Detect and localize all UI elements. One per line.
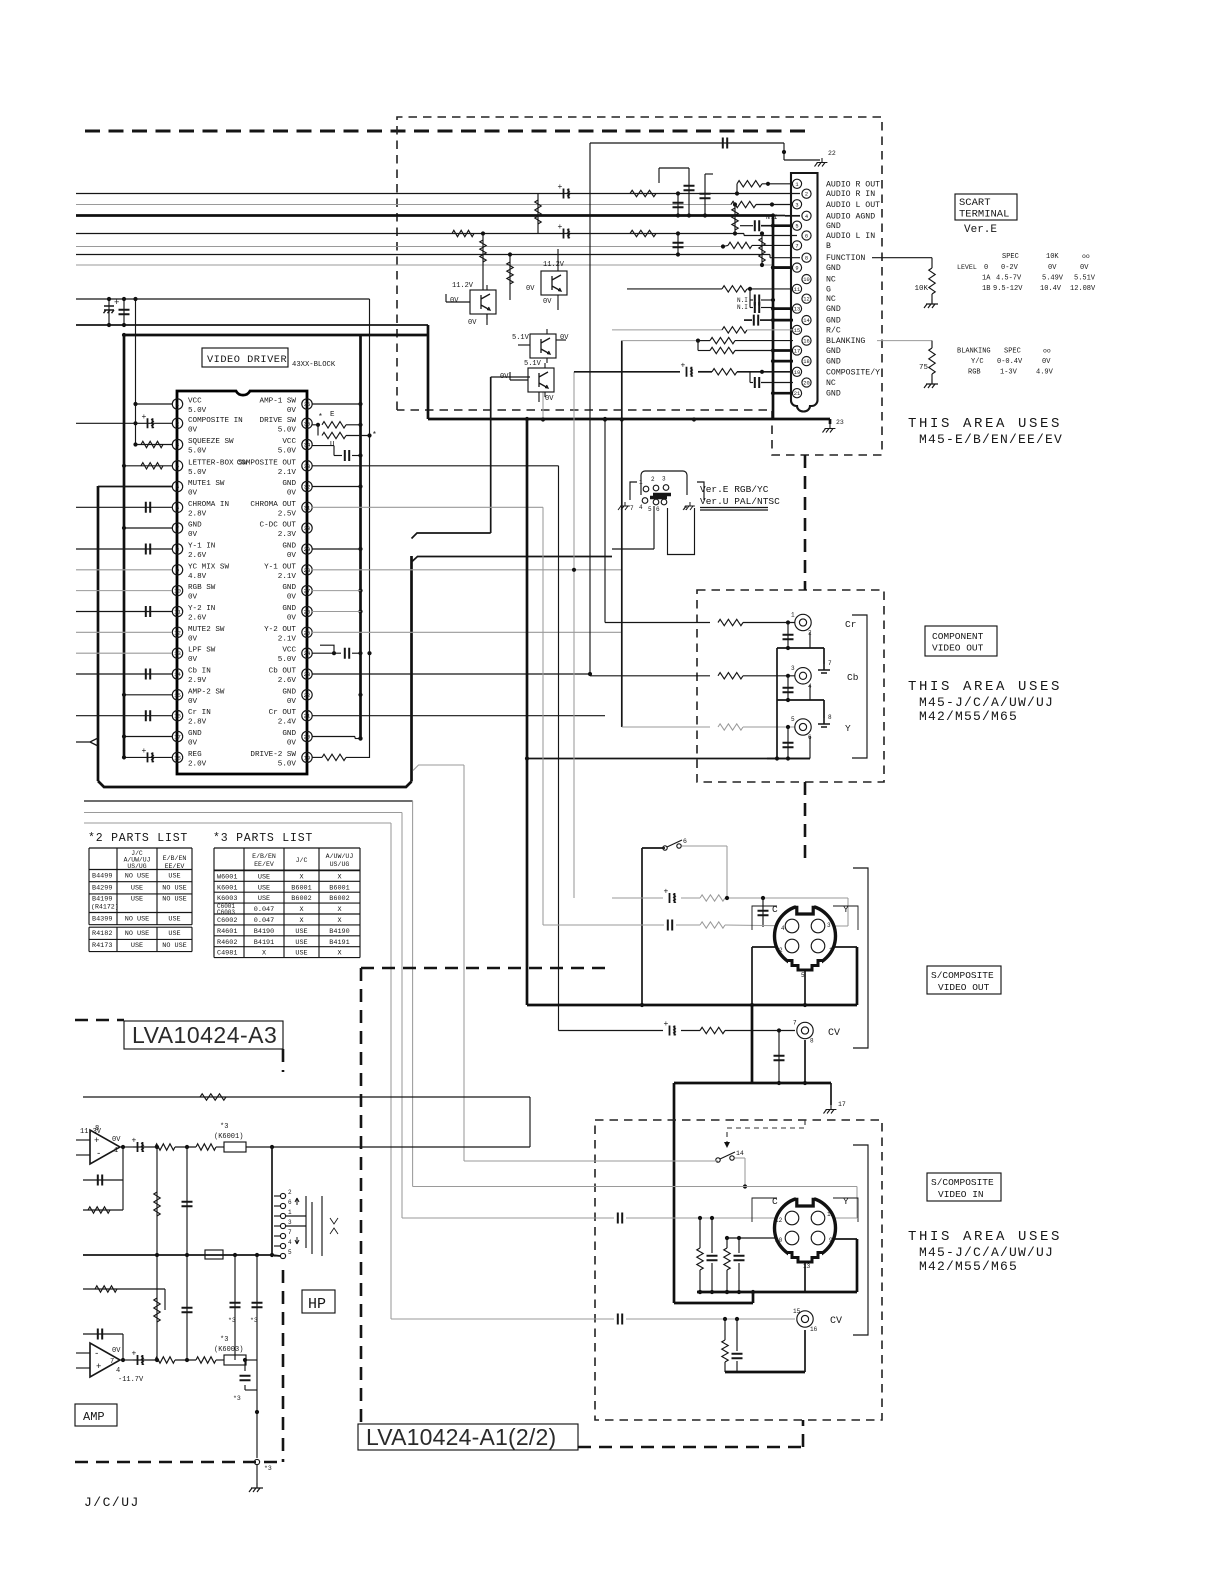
- dashed box component video out: [697, 590, 884, 782]
- svg-text:SPEC: SPEC: [1004, 348, 1021, 356]
- svg-text:E: E: [330, 411, 335, 419]
- resistor opamp A fb2: [83, 1209, 123, 1211]
- svg-text:Y: Y: [843, 1196, 849, 1207]
- IC pin 22 GND: [302, 690, 312, 700]
- svg-text:(K6001): (K6001): [214, 1133, 243, 1141]
- IC pin 18 REG: [172, 752, 182, 762]
- svg-text:10.4V: 10.4V: [1040, 285, 1062, 293]
- svg-text:GND: GND: [282, 584, 296, 592]
- IC pin 12 MUTE2 SW: [172, 627, 182, 637]
- svg-text:M45-J/C/A/UW/UJ: M45-J/C/A/UW/UJ: [919, 695, 1054, 710]
- wire to gnd 22: [783, 143, 785, 160]
- transistor Q4: [528, 368, 554, 392]
- transistor Q2: [541, 271, 567, 295]
- resistor B2: [196, 1357, 216, 1363]
- dashed A1 top edge: [361, 967, 612, 970]
- svg-text:8: 8: [810, 1038, 814, 1045]
- capacitor electrolytic audio r: [564, 189, 569, 199]
- svg-text:0V: 0V: [543, 298, 552, 306]
- IC pin 29 GND: [302, 544, 312, 554]
- svg-text:5.1V: 5.1V: [512, 334, 530, 342]
- svg-text:B4190: B4190: [329, 928, 349, 936]
- resistor A2: [196, 1144, 216, 1150]
- svg-text:27: 27: [304, 588, 311, 595]
- svg-text:GND: GND: [188, 522, 202, 530]
- wire pin2 electro entry: [133, 421, 137, 425]
- capacitor pin14: [744, 319, 752, 321]
- svg-text:0V: 0V: [560, 334, 569, 342]
- dashed A1 bottom: [578, 1446, 803, 1449]
- capacitor opamp A fb: [83, 1179, 123, 1181]
- resistor 75: [929, 348, 935, 374]
- svg-text:J/C/UJ: J/C/UJ: [84, 1495, 140, 1510]
- svg-text:USE: USE: [258, 884, 270, 892]
- svg-text:C: C: [772, 1196, 778, 1207]
- electro B out: [138, 1355, 143, 1365]
- svg-text:24: 24: [304, 650, 311, 657]
- capacitor pin14: [76, 673, 172, 675]
- svg-text:NO USE: NO USE: [125, 873, 149, 881]
- svg-text:S/COMPOSITE: S/COMPOSITE: [931, 970, 994, 981]
- label box S/COMPOSITE VIDEO IN: [927, 1173, 1001, 1201]
- svg-text:USE: USE: [295, 928, 307, 936]
- svg-text:NC: NC: [826, 276, 836, 285]
- svg-text:-11.7V: -11.7V: [118, 1376, 144, 1384]
- table *2 parts list: [89, 847, 192, 849]
- left bus 2: [97, 486, 100, 781]
- svg-text:SPEC: SPEC: [1002, 253, 1019, 261]
- cap divider B x187: [186, 1255, 188, 1360]
- svg-text:B: B: [826, 242, 831, 251]
- IC pin 34 VCC: [302, 439, 312, 449]
- wire cv out: [559, 1030, 664, 1032]
- wire pin7 gnd: [124, 527, 172, 529]
- vcc bus vertical: [369, 299, 371, 758]
- svg-text:12: 12: [775, 1217, 783, 1224]
- svg-text:16: 16: [803, 339, 809, 345]
- svg-text:4.5-7V: 4.5-7V: [996, 275, 1022, 283]
- svg-text:M45-E/B/EN/EE/EV: M45-E/B/EN/EE/EV: [919, 432, 1063, 447]
- svg-text:*3: *3: [220, 1123, 228, 1131]
- switch 14 feed: [464, 1160, 718, 1162]
- svg-text:2: 2: [805, 192, 808, 198]
- wire audio gnd bus thick: [76, 214, 773, 217]
- IC pin 5 MUTE1 SW: [172, 481, 182, 491]
- svg-text:10K: 10K: [914, 285, 928, 293]
- svg-text:LPF SW: LPF SW: [188, 647, 216, 655]
- svg-text:23: 23: [304, 671, 311, 678]
- svg-text:35: 35: [304, 420, 311, 427]
- svg-text:8: 8: [176, 546, 179, 553]
- svg-text:5.0V: 5.0V: [188, 448, 207, 456]
- svg-text:0.047: 0.047: [254, 917, 274, 925]
- svg-text:VCC: VCC: [282, 647, 296, 655]
- svg-text:B6001: B6001: [291, 884, 311, 892]
- svg-text:C: C: [772, 904, 778, 915]
- wire cv in: [391, 1318, 614, 1320]
- capacitor cv shunt: [778, 1031, 780, 1084]
- svg-text:3: 3: [795, 202, 798, 208]
- wire audio R in bus: [76, 193, 557, 195]
- svg-text:4.9V: 4.9V: [1036, 369, 1054, 377]
- thick bus y1005: [527, 1004, 857, 1007]
- svg-text:NC: NC: [826, 295, 836, 304]
- scart pin 8 FUNCTION: [802, 253, 811, 262]
- svg-text:14: 14: [174, 671, 181, 678]
- svg-text:14: 14: [803, 318, 809, 324]
- IC pin 26 GND: [302, 606, 312, 616]
- svg-text:32: 32: [304, 484, 311, 491]
- switch 6 wire left: [642, 847, 665, 849]
- svg-text:7: 7: [176, 525, 179, 532]
- svg-text:15: 15: [793, 1308, 801, 1315]
- scart pin 2 AUDIO R IN: [802, 189, 811, 198]
- svg-text:J/C: J/C: [296, 857, 308, 864]
- wire pin8 function: [769, 255, 771, 258]
- svg-text:S/COMPOSITE: S/COMPOSITE: [931, 1177, 994, 1188]
- svg-text:+: +: [142, 413, 147, 422]
- resistor pin35 E: [312, 424, 318, 426]
- resistor pin35 U: [317, 425, 319, 436]
- scart pin 16 BLANKING: [802, 336, 811, 345]
- svg-text:B4191: B4191: [254, 939, 274, 947]
- svg-text:M42/M55/M65: M42/M55/M65: [919, 1259, 1018, 1274]
- svg-text:13: 13: [174, 650, 181, 657]
- wire bus y254: [76, 254, 770, 256]
- svg-text:2.0V: 2.0V: [188, 760, 207, 768]
- ground version left: [618, 502, 630, 510]
- resistor to pin3: [731, 201, 756, 207]
- svg-text:5.0V: 5.0V: [278, 656, 297, 664]
- riser to gnd17: [830, 1083, 832, 1105]
- wire W2 horizontal: [412, 557, 613, 563]
- wire feedback y1097: [83, 1096, 530, 1098]
- svg-text:6: 6: [683, 838, 687, 845]
- label box AMP: [75, 1404, 117, 1426]
- svg-text:oo: oo: [1043, 348, 1051, 355]
- bus x558 composite: [558, 466, 560, 1031]
- scart pin 13 GND: [792, 304, 801, 313]
- svg-text:8: 8: [828, 714, 832, 721]
- transistor Q1: [470, 290, 496, 314]
- svg-text:16: 16: [174, 713, 181, 720]
- svg-text:0-0.4V: 0-0.4V: [997, 358, 1023, 366]
- dashed box SCART area: [397, 117, 882, 455]
- IC pin 6 CHROMA IN: [172, 502, 182, 512]
- svg-text:(K6003): (K6003): [214, 1346, 243, 1354]
- ground cap 7: [818, 664, 830, 673]
- svg-text:*: *: [372, 431, 377, 440]
- svg-text:26: 26: [304, 609, 311, 616]
- svg-text:USE: USE: [131, 896, 143, 904]
- svg-text:AUDIO AGND: AUDIO AGND: [826, 212, 875, 221]
- wire y out: [622, 726, 710, 728]
- svg-text:22: 22: [304, 692, 311, 699]
- svg-text:*3: *3: [264, 1465, 272, 1472]
- svg-text:2: 2: [779, 947, 783, 954]
- fusible link mid: [205, 1250, 223, 1259]
- svg-text:17: 17: [794, 349, 800, 355]
- svg-text:USE: USE: [168, 873, 180, 881]
- svg-text:0V: 0V: [287, 698, 297, 706]
- wire transistor q1 base riser: [482, 234, 484, 291]
- svg-text:10K: 10K: [1046, 253, 1059, 261]
- cap divider x187: [186, 1147, 188, 1255]
- svg-text:5.0V: 5.0V: [188, 407, 207, 415]
- HP connector pins: [274, 1195, 280, 1197]
- svg-text:USE: USE: [131, 885, 143, 893]
- svg-text:0V: 0V: [1042, 358, 1051, 366]
- cv in rc pair capacitor: [736, 1319, 738, 1351]
- capacitor cr: [787, 623, 789, 649]
- svg-text:Cb: Cb: [847, 672, 859, 683]
- svg-text:B4499: B4499: [92, 873, 112, 881]
- svg-text:VIDEO DRIVER: VIDEO DRIVER: [207, 354, 287, 366]
- capacitor top coupling: [590, 142, 784, 144]
- svg-text:Y-1 IN: Y-1 IN: [188, 543, 215, 551]
- svg-text:7: 7: [110, 1358, 114, 1366]
- capacitor pin6: [76, 506, 172, 508]
- op-amp block VIDEO DRIVER label box: [202, 348, 288, 367]
- svg-text:Cr OUT: Cr OUT: [269, 709, 297, 717]
- svg-text:B4190: B4190: [254, 928, 274, 936]
- svg-text:NO USE: NO USE: [162, 885, 186, 893]
- svg-text:1: 1: [795, 182, 798, 188]
- IC pin 20 GND: [302, 731, 312, 741]
- svg-text:0V: 0V: [188, 426, 198, 434]
- svg-text:2.5V: 2.5V: [278, 510, 297, 518]
- svg-text:6: 6: [656, 506, 660, 513]
- resistor audio r: [630, 190, 656, 196]
- svg-text:(R4172): (R4172): [91, 904, 119, 911]
- wire stub to pin1: [135, 299, 137, 445]
- svg-text:7: 7: [795, 243, 798, 249]
- svg-text:5.51V: 5.51V: [1074, 275, 1096, 283]
- wire pin2: [737, 193, 800, 195]
- svg-text:Y-2 IN: Y-2 IN: [188, 605, 215, 613]
- wire hp5 row: [83, 1254, 272, 1256]
- svg-text:R4601: R4601: [217, 928, 237, 936]
- svg-text:11: 11: [794, 287, 800, 293]
- svg-text:+: +: [681, 361, 686, 370]
- ground 75: [924, 379, 938, 388]
- svg-text:7: 7: [630, 505, 634, 512]
- thick corner x674: [674, 1302, 753, 1305]
- svg-text:1A: 1A: [982, 275, 991, 283]
- svg-text:USE: USE: [168, 916, 180, 924]
- svg-text:2.3V: 2.3V: [278, 531, 297, 539]
- version switch pins bottom: [642, 498, 648, 504]
- wire Q4 base: [491, 376, 530, 378]
- svg-text:FUNCTION: FUNCTION: [826, 254, 865, 263]
- din out pin2 wire: [752, 946, 778, 948]
- IC gnd bus vertical: [359, 335, 362, 739]
- IC pin 32 GND: [302, 481, 312, 491]
- svg-text:NO USE: NO USE: [162, 896, 186, 904]
- label box COMPONENT VIDEO OUT: [925, 626, 997, 656]
- scart pin 10 NC: [802, 275, 811, 284]
- capacitor stub x678a: [677, 194, 679, 216]
- resistor audio l: [630, 230, 656, 236]
- svg-text:3: 3: [288, 1219, 292, 1226]
- svg-text:4: 4: [781, 925, 785, 932]
- wire pin26 gnd: [312, 611, 361, 613]
- svg-text:USE: USE: [295, 950, 307, 958]
- wire opamp A input stubs: [76, 1139, 90, 1141]
- svg-text:4.8V: 4.8V: [188, 573, 207, 581]
- wire pin9 gnd: [773, 266, 791, 269]
- din in pin13 wire: [804, 1258, 806, 1292]
- svg-text:0V: 0V: [287, 594, 297, 602]
- svg-text:CV: CV: [828, 1028, 840, 1039]
- dashed spine x805 upper: [804, 455, 807, 590]
- svg-text:0V: 0V: [112, 1347, 121, 1355]
- IC pin 30 C-DC OUT: [302, 523, 312, 533]
- wire pin12: [76, 631, 172, 633]
- svg-text:9: 9: [829, 1237, 833, 1244]
- svg-text:1: 1: [288, 1209, 292, 1216]
- electro A out: [138, 1142, 143, 1152]
- svg-text:X: X: [299, 906, 303, 914]
- svg-text:5: 5: [176, 484, 179, 491]
- svg-text:0V: 0V: [287, 552, 297, 560]
- scart pin 11 G: [792, 284, 801, 293]
- svg-text:9.5-12V: 9.5-12V: [993, 285, 1023, 293]
- bus gray x402: [401, 813, 403, 1219]
- svg-text:2.8V: 2.8V: [188, 510, 207, 518]
- svg-text:6: 6: [805, 234, 808, 240]
- wire pin16 blanking resistors: [622, 340, 698, 342]
- svg-text:USE: USE: [295, 939, 307, 947]
- switch 14 out: [735, 1157, 745, 1159]
- svg-text:X: X: [299, 917, 303, 925]
- svg-text:*3: *3: [228, 1317, 236, 1324]
- svg-text:COMPOSITE IN: COMPOSITE IN: [188, 417, 243, 425]
- scart pin 4 AUDIO AGND: [802, 211, 811, 220]
- svg-text:19: 19: [794, 370, 800, 376]
- svg-text:7: 7: [793, 1020, 797, 1027]
- IC pin 25 Y-2 OUT: [302, 627, 312, 637]
- bus x590 cb: [589, 143, 591, 674]
- svg-text:17: 17: [174, 734, 181, 741]
- table *3 parts list: [214, 847, 360, 849]
- svg-text:0V: 0V: [287, 615, 297, 623]
- bracket component jacks: [852, 615, 867, 758]
- svg-text:+: +: [94, 1136, 99, 1146]
- IC pin 23 Cb OUT: [302, 669, 312, 679]
- bus gray x391: [390, 823, 392, 1319]
- svg-text:0V: 0V: [545, 395, 554, 403]
- svg-text:AUDIO R OUT: AUDIO R OUT: [826, 180, 880, 189]
- svg-text:C4981: C4981: [217, 950, 237, 958]
- scart gnd bus: [772, 216, 775, 420]
- svg-text:Y: Y: [843, 904, 849, 915]
- svg-text:LVA10424-A1(2/2): LVA10424-A1(2/2): [366, 1424, 556, 1450]
- capacitor electrolytic power: [108, 299, 110, 325]
- bottom thick bus: [98, 781, 412, 787]
- svg-text:+: +: [558, 183, 563, 192]
- svg-text:Y/C: Y/C: [971, 358, 984, 366]
- wire W1 horizontal: [412, 533, 491, 539]
- svg-text:5: 5: [791, 716, 795, 723]
- capacitor NI pin5: [740, 225, 753, 227]
- svg-text:B4399: B4399: [92, 916, 112, 924]
- svg-text:R4182: R4182: [92, 930, 112, 938]
- capacitor NI b: [749, 300, 751, 308]
- capacitor y: [787, 727, 789, 759]
- svg-text:3: 3: [827, 922, 831, 929]
- svg-text:30: 30: [304, 525, 311, 532]
- svg-text:Cr IN: Cr IN: [188, 709, 211, 717]
- dashed line A3 top: [75, 1019, 124, 1022]
- svg-text:GND: GND: [282, 730, 296, 738]
- wire pin25 y2 out: [312, 631, 622, 633]
- ground 22: [815, 158, 828, 167]
- jack Cb: [795, 668, 811, 684]
- op-amp U2a: [90, 1130, 120, 1164]
- dashed A1 left edge: [360, 968, 363, 1424]
- wire pin17 gnd: [124, 736, 172, 738]
- wire bus y246: [76, 246, 723, 248]
- resistor divider B x157: [156, 1255, 158, 1360]
- scart pin 14 GND: [802, 316, 811, 325]
- resistor r233: [452, 230, 474, 236]
- bus thick x527: [526, 419, 529, 1005]
- svg-text:0V: 0V: [188, 740, 198, 748]
- cv in rc pair resistor: [724, 1319, 726, 1340]
- resistor to pin1: [736, 184, 738, 194]
- wire c in: [402, 1217, 614, 1219]
- svg-text:G: G: [826, 285, 831, 294]
- svg-text:21: 21: [794, 391, 800, 397]
- svg-text:BLANKING: BLANKING: [957, 348, 991, 356]
- svg-text:Ver.U PAL/NTSC: Ver.U PAL/NTSC: [700, 496, 780, 507]
- wire vcc top: [76, 298, 370, 300]
- svg-text:EE/EV: EE/EV: [254, 861, 274, 868]
- svg-text:6: 6: [176, 504, 179, 511]
- svg-text:22: 22: [828, 150, 836, 157]
- svg-text:SCART: SCART: [959, 197, 991, 209]
- svg-text:BLANKING: BLANKING: [826, 337, 865, 346]
- svg-text:YC MIX SW: YC MIX SW: [188, 563, 229, 571]
- svg-text:GND: GND: [188, 730, 202, 738]
- svg-text:2: 2: [651, 476, 655, 483]
- label box LVA10424-A1: [358, 1424, 578, 1450]
- svg-text:1: 1: [829, 947, 833, 954]
- svg-text:43XX-BLOCK: 43XX-BLOCK: [292, 361, 336, 369]
- caps *3 pair: [234, 1255, 236, 1360]
- svg-text:34: 34: [304, 442, 311, 449]
- ground *3: [249, 1483, 263, 1492]
- svg-text:GND: GND: [826, 347, 841, 356]
- rc pair 2 capacitor: [738, 1238, 740, 1253]
- capacitor NI a: [749, 289, 751, 300]
- wire y to din: [612, 897, 663, 899]
- dashed inner arrow box: [727, 1120, 805, 1148]
- bus x622 y comp: [621, 341, 623, 727]
- resistor pin4: [124, 465, 172, 467]
- dashed A3 bottom edge: [75, 1461, 283, 1464]
- svg-text:11: 11: [827, 1211, 835, 1218]
- svg-text:2.1V: 2.1V: [278, 573, 297, 581]
- switch 6: [663, 846, 667, 850]
- svg-text:GND: GND: [826, 305, 841, 314]
- svg-text:DRIVE-2 SW: DRIVE-2 SW: [250, 751, 296, 759]
- svg-text:1: 1: [791, 612, 795, 619]
- svg-text:M42/M55/M65: M42/M55/M65: [919, 709, 1018, 724]
- dashed A3 label corner: [282, 1049, 285, 1072]
- svg-text:GND: GND: [826, 264, 841, 273]
